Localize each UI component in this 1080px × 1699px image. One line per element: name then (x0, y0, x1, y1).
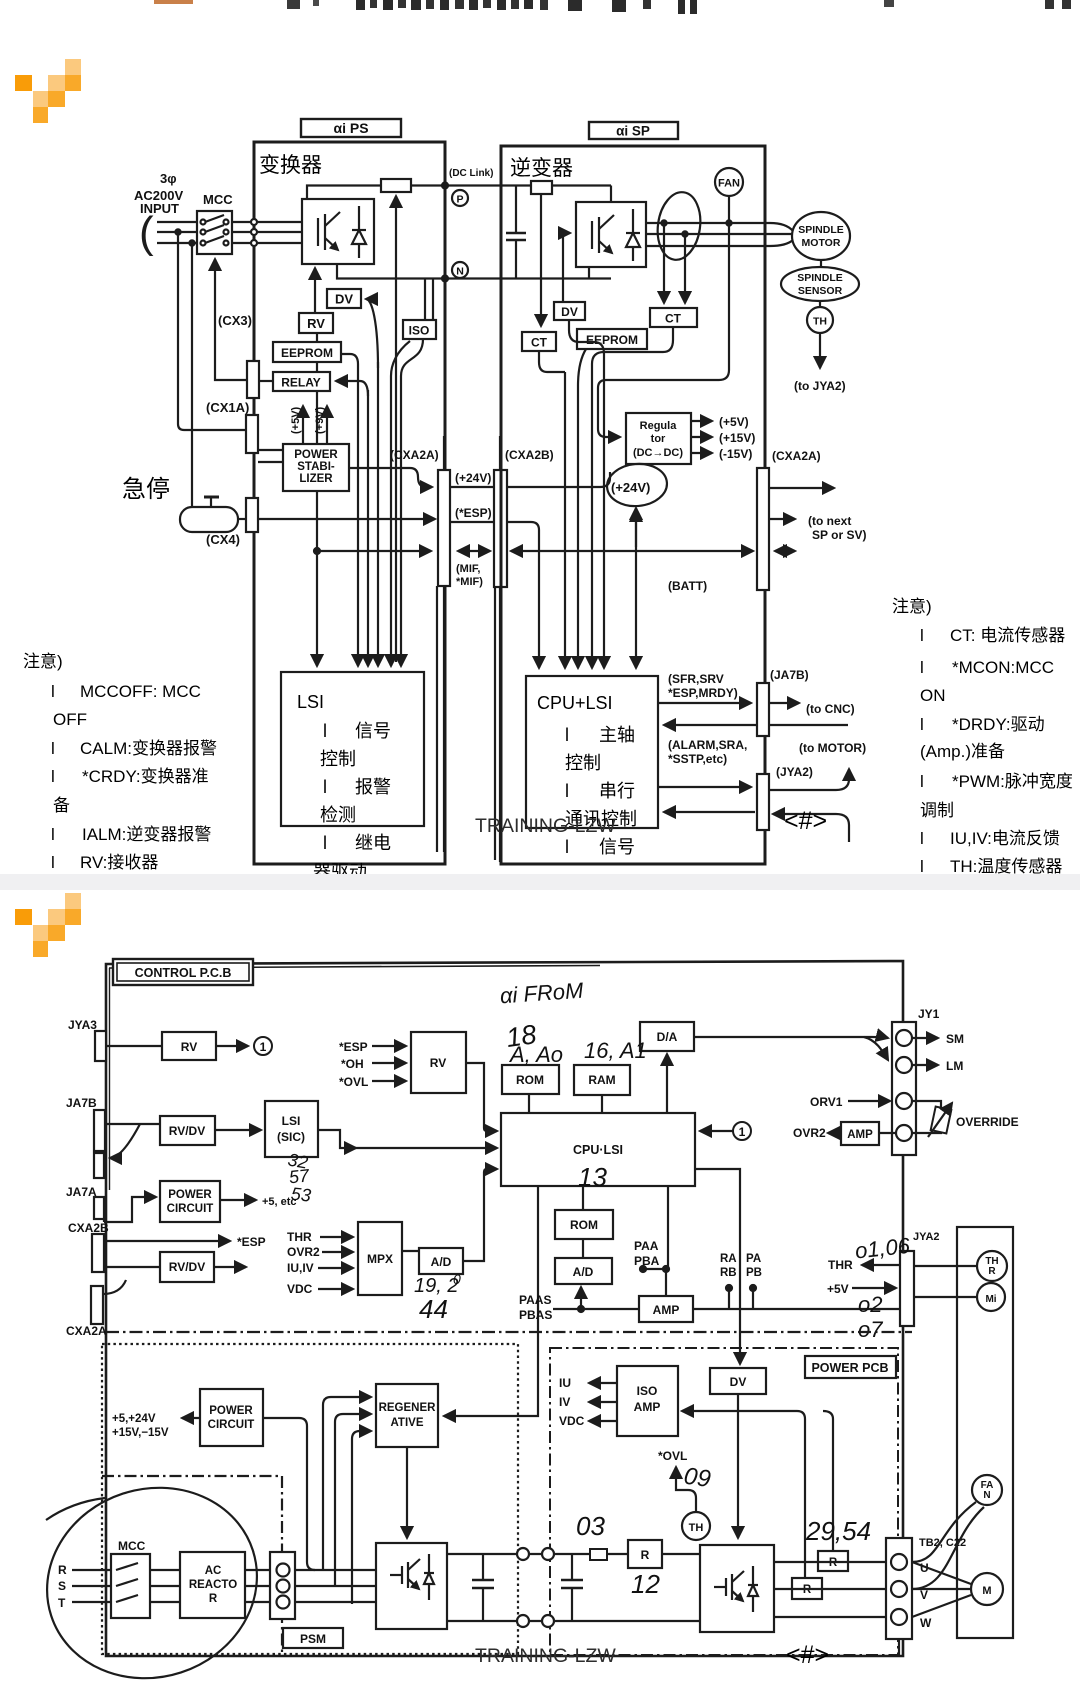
svg-text:LM: LM (946, 1059, 963, 1073)
wire relay feed (259, 380, 273, 382)
box REGENERATIVE (376, 1384, 438, 1447)
svg-text:RA: RA (720, 1253, 737, 1265)
svg-text:+15V,−15V: +15V,−15V (112, 1427, 169, 1439)
svg-text:STABI-: STABI- (297, 461, 335, 473)
capacitor DC bus (515, 186, 517, 234)
box RAM (574, 1065, 630, 1095)
svg-text:CPU·LSI: CPU·LSI (573, 1143, 623, 1157)
box PSM boundary (dash-dot) (102, 1476, 282, 1654)
svg-text:l: l (920, 857, 924, 874)
svg-text:(+9V): (+9V) (314, 406, 326, 434)
wire +24V from stabilizer (349, 468, 432, 487)
svg-text:M: M (982, 1585, 991, 1597)
box D/A (640, 1022, 694, 1051)
node +24V oval (hand-drawn) (605, 461, 668, 508)
svg-text:POWER: POWER (209, 1405, 253, 1417)
connector JYA2 bar (757, 774, 769, 830)
connector 3-phase column (270, 1552, 295, 1619)
svg-text:(+5V): (+5V) (290, 406, 302, 434)
svg-text:l: l (920, 715, 924, 734)
wire regen to igbt (406, 1447, 408, 1538)
box POWER CIRCUIT (160, 1181, 220, 1222)
box αi SP title (589, 122, 678, 139)
svg-text:信号: 信号 (599, 837, 635, 857)
svg-text:l: l (323, 721, 327, 741)
svg-text:DV: DV (561, 305, 578, 319)
svg-text:PB: PB (746, 1267, 762, 1279)
svg-text:53: 53 (290, 1184, 312, 1206)
wire *ESP between bars (450, 521, 494, 523)
svg-text:信号: 信号 (355, 721, 391, 741)
svg-text:JYA3: JYA3 (68, 1018, 97, 1032)
svg-text:RELAY: RELAY (281, 376, 321, 390)
potentiometer OVERRIDE (912, 1101, 941, 1109)
svg-text:(SIC): (SIC) (277, 1130, 305, 1144)
svg-text:(to JYA2): (to JYA2) (794, 379, 846, 393)
svg-text:控制: 控制 (320, 749, 356, 769)
svg-text:注意): 注意) (892, 597, 932, 616)
wire JYA2 to sensors (914, 1265, 977, 1267)
svg-text:(ALARM,SRA,: (ALARM,SRA, (668, 738, 747, 752)
svg-text:1: 1 (739, 1125, 746, 1139)
box AMP (lower) (639, 1296, 693, 1322)
wire motor 3-phase output (646, 223, 793, 231)
node circled 1 (254, 1037, 272, 1055)
svg-text:l: l (565, 781, 569, 801)
box CONTROL P.C.B enclosure (106, 961, 903, 1656)
svg-text:ROM: ROM (570, 1218, 598, 1232)
wire input drop lines (178, 232, 246, 430)
svg-text:W: W (920, 1616, 932, 1630)
svg-text:IU,IV: IU,IV (287, 1261, 314, 1275)
resistor PS charging (381, 179, 411, 192)
box PS main enclosure (254, 142, 445, 864)
fuse (590, 1549, 607, 1560)
svg-text:l: l (323, 777, 327, 797)
svg-text:RV:接收器: RV:接收器 (80, 853, 158, 872)
hand-drawn ellipse (22, 1461, 282, 1699)
svg-text:继电: 继电 (355, 833, 391, 853)
box AC REACTOR (180, 1552, 245, 1618)
svg-text:POWER: POWER (294, 449, 338, 461)
svg-text:PA: PA (746, 1253, 761, 1265)
svg-text:+5,+24V: +5,+24V (112, 1413, 156, 1425)
svg-text:IU,IV:电流反馈: IU,IV:电流反馈 (950, 829, 1060, 848)
transistor PS IGBT module (302, 199, 374, 264)
svg-text:JY1: JY1 (918, 1007, 940, 1021)
box LSI (281, 672, 424, 826)
svg-text:03: 03 (576, 1511, 605, 1541)
svg-text:ROM: ROM (516, 1073, 544, 1087)
box A/D (lower) (555, 1258, 612, 1284)
svg-text:SM: SM (946, 1032, 964, 1046)
resistor R (12) (628, 1540, 662, 1568)
wire MIF feed from LSI bundle (317, 550, 431, 552)
svg-text:OVR2: OVR2 (287, 1245, 320, 1259)
box DV (PS) (327, 289, 361, 308)
svg-text:*OH: *OH (341, 1057, 364, 1071)
box CT right (SP) (650, 308, 697, 327)
box ROM (lower) (582, 1186, 584, 1210)
svg-text:44: 44 (419, 1294, 448, 1324)
box DV (power) (710, 1368, 766, 1394)
box αi PS title (301, 119, 401, 137)
box RV/DV (CXA2B) (160, 1252, 214, 1282)
regulator DC-DC (626, 413, 691, 464)
svg-text:SPINDLE: SPINDLE (797, 272, 843, 284)
svg-text:FAN: FAN (718, 178, 740, 190)
svg-text:(DC→DC): (DC→DC) (633, 447, 683, 459)
connector CX3 bar (247, 361, 259, 398)
box RV (JYA3) (162, 1032, 216, 1060)
svg-text:1: 1 (260, 1040, 267, 1054)
svg-text:CIRCUIT: CIRCUIT (167, 1203, 214, 1215)
box CPU+LSI (564, 372, 566, 668)
svg-text:CT: 电流传感器: CT: 电流传感器 (950, 626, 1065, 645)
svg-text:THR: THR (287, 1230, 312, 1244)
svg-text:CT: CT (665, 312, 682, 326)
resistor SP (531, 181, 552, 194)
box POWER CIRCUIT (lower) (200, 1389, 263, 1446)
svg-text:CT: CT (531, 336, 548, 350)
svg-text:AMP: AMP (634, 1400, 661, 1414)
wire bar to stabilizer (258, 449, 283, 451)
svg-text:(to next: (to next (808, 514, 851, 528)
svg-text:(CXA2B): (CXA2B) (505, 448, 554, 462)
svg-text:RAM: RAM (588, 1073, 615, 1087)
svg-text:AMP: AMP (653, 1303, 680, 1317)
node junctions on PS edge (251, 219, 257, 225)
svg-text:o2: o2 (858, 1292, 882, 1317)
box R (sense 2) (792, 1578, 822, 1599)
svg-text:EEPROM: EEPROM (281, 346, 333, 360)
svg-text:(JYA2): (JYA2) (776, 765, 813, 779)
svg-text:(+24V): (+24V) (611, 480, 650, 495)
node circled 1 (right) (733, 1122, 751, 1140)
sensor Mi (977, 1283, 1005, 1311)
svg-text:*ESP: *ESP (339, 1040, 368, 1054)
svg-text:<#>: <#> (786, 1641, 829, 1669)
svg-text:PAAS: PAAS (519, 1293, 551, 1307)
svg-text:αi FRoM: αi FRoM (499, 978, 585, 1009)
svg-text:(to CNC): (to CNC) (806, 702, 855, 716)
svg-text:+5V: +5V (827, 1282, 849, 1296)
box left power unit (dotted) (102, 1344, 518, 1654)
svg-text:DV: DV (730, 1375, 747, 1389)
svg-text:l: l (565, 725, 569, 745)
wire LSI(SIC) to CPU (318, 1130, 497, 1148)
thermistor TH R (977, 1251, 1007, 1281)
svg-text:PAA: PAA (634, 1239, 659, 1253)
svg-text:RV: RV (307, 316, 325, 331)
switch emergency stop button (180, 507, 238, 532)
wire to next SP or SV (769, 487, 834, 489)
svg-text:12: 12 (631, 1569, 660, 1599)
svg-text:注意): 注意) (23, 652, 63, 671)
svg-text:l: l (920, 829, 924, 848)
svg-text:*ESP: *ESP (237, 1235, 266, 1249)
CT sensing loop (hand-drawn oval) (653, 189, 704, 262)
spindle motor (792, 212, 850, 260)
node current taps (661, 220, 666, 225)
svg-text:REGENER: REGENER (379, 1402, 437, 1414)
wire bundle down to LSI (316, 333, 318, 666)
box ISO AMP (617, 1366, 678, 1436)
wire +24V between bars (450, 486, 494, 488)
svg-text:*SSTP,etc): *SSTP,etc) (668, 752, 727, 766)
svg-text:*DRDY:驱动: *DRDY:驱动 (952, 715, 1045, 734)
svg-text:(+15V): (+15V) (719, 431, 755, 445)
top strip: cut-off fragments of previous slide title (0, 0, 1080, 24)
svg-text:*PWM:脉冲宽度: *PWM:脉冲宽度 (952, 772, 1073, 791)
svg-text:P: P (456, 194, 463, 206)
contactor MCC (197, 211, 232, 254)
svg-text:*OVL: *OVL (339, 1075, 368, 1089)
svg-text:l: l (51, 767, 55, 786)
svg-text:JYA2: JYA2 (913, 1231, 940, 1243)
svg-text:SENSOR: SENSOR (798, 285, 843, 297)
transistor SP IGBT module (576, 202, 646, 267)
svg-text:CPU+LSI: CPU+LSI (537, 693, 613, 713)
svg-text:*MCON:MCC: *MCON:MCC (952, 658, 1054, 677)
svg-text:N: N (983, 1490, 990, 1501)
svg-text:(MIF,: (MIF, (456, 563, 480, 575)
svg-text:SPINDLE: SPINDLE (798, 224, 844, 236)
overlay notes left (23, 652, 217, 872)
box CONTROL P.C.B label (113, 959, 253, 985)
svg-text:AMP: AMP (847, 1129, 873, 1141)
svg-text:R: R (58, 1563, 67, 1577)
svg-text:3φ: 3φ (160, 171, 177, 186)
box EEPROM (SP) (577, 329, 647, 349)
connector JA7B bar (757, 683, 769, 736)
svg-text:TH: TH (689, 1522, 704, 1534)
svg-text:l: l (920, 658, 924, 677)
svg-text:o7: o7 (858, 1317, 883, 1342)
thermistor TH (819, 301, 821, 307)
svg-text:REACTO: REACTO (189, 1579, 237, 1591)
box right power pcb (dash-dot) (550, 1348, 898, 1655)
wire AMP output to JYA2 (693, 1308, 900, 1310)
svg-text:l: l (323, 833, 327, 853)
svg-text:RV: RV (181, 1040, 197, 1054)
svg-text:检测: 检测 (320, 805, 356, 825)
svg-text:<#>: <#> (784, 807, 827, 835)
svg-text:ISO: ISO (409, 324, 430, 338)
wire current sense to ISO AMP (682, 1411, 805, 1578)
svg-text:*CRDY:变换器准: *CRDY:变换器准 (82, 767, 209, 786)
box RV/DV (JA7B) (160, 1116, 215, 1145)
wire 3-phase input lines (157, 221, 302, 223)
svg-text:(SFR,SRV: (SFR,SRV (668, 672, 724, 686)
box CT left (SP) (540, 194, 542, 326)
wire D/A to JY1 (694, 1037, 888, 1038)
box A/D (419, 1248, 463, 1274)
grey divider (0, 874, 1080, 890)
svg-text:OVERRIDE: OVERRIDE (956, 1115, 1019, 1129)
svg-text:0: 0 (453, 1271, 461, 1287)
node 3φ AC200V INPUT label (134, 171, 233, 216)
svg-text:ORV1: ORV1 (810, 1095, 843, 1109)
wire MIF handshake (458, 550, 490, 552)
box CPU+LSI (501, 1113, 695, 1186)
wire CPU right to DV (695, 1169, 740, 1364)
svg-text:IU: IU (559, 1376, 571, 1390)
svg-text:VDC: VDC (559, 1414, 585, 1428)
svg-text:CIRCUIT: CIRCUIT (208, 1419, 255, 1431)
svg-text:变换器: 变换器 (259, 154, 322, 177)
svg-text:l: l (920, 626, 924, 645)
svg-text:LSI: LSI (282, 1114, 301, 1128)
svg-text:报警: 报警 (355, 777, 391, 797)
power stabilizer (283, 444, 349, 491)
wire module outputs to TB2 (774, 1561, 886, 1563)
svg-text:*OVL: *OVL (658, 1449, 687, 1463)
svg-text:串行: 串行 (599, 781, 635, 801)
svg-text:*ESP,MRDY): *ESP,MRDY) (668, 686, 738, 700)
svg-text:(CX3): (CX3) (218, 313, 252, 328)
logo slide1 (15, 59, 81, 123)
svg-text:调制: 调制 (920, 801, 954, 820)
svg-text:OFF: OFF (53, 710, 87, 729)
svg-text:CALM:变换器报警: CALM:变换器报警 (80, 739, 217, 758)
box DV (SP) (563, 233, 570, 302)
box RELAY (273, 372, 330, 391)
svg-text:TH:温度传感器: TH:温度传感器 (950, 857, 1062, 874)
svg-text:(+24V): (+24V) (455, 471, 491, 485)
svg-text:(CXA2A): (CXA2A) (390, 448, 439, 462)
svg-text:器驱动: 器驱动 (313, 862, 367, 874)
svg-text:l: l (51, 682, 55, 701)
svg-text:DV: DV (335, 292, 353, 307)
svg-text:(+5V): (+5V) (719, 415, 749, 429)
svg-text:(DC Link): (DC Link) (449, 168, 493, 179)
svg-text:POWER PCB: POWER PCB (811, 1361, 888, 1375)
wire DC link P rail (307, 186, 381, 200)
svg-text:*MIF): *MIF) (456, 576, 483, 588)
wire dash-dot boundary (106, 1331, 912, 1333)
svg-text:EEPROM: EEPROM (586, 333, 638, 347)
svg-text:逆变器: 逆变器 (510, 157, 573, 180)
node bus couplers (517, 1548, 529, 1560)
svg-text:IALM:逆变器报警: IALM:逆变器报警 (82, 825, 211, 844)
overlay text LSI block (297, 692, 391, 882)
svg-text:R: R (988, 1266, 996, 1277)
svg-text:控制: 控制 (565, 753, 601, 773)
wire ESP line to CXA2A (258, 518, 435, 520)
svg-text:ON: ON (920, 686, 946, 705)
wire regen feeds (323, 1397, 371, 1570)
svg-text:TRAINING-LZW: TRAINING-LZW (475, 815, 616, 837)
svg-text:ATIVE: ATIVE (390, 1417, 423, 1429)
box ROM (502, 1065, 559, 1094)
connector CX4 bar (246, 498, 258, 532)
box motor housing (957, 1227, 1013, 1638)
wire N rail (337, 264, 611, 279)
svg-text:Mi: Mi (985, 1294, 996, 1305)
svg-text:S: S (58, 1579, 66, 1593)
svg-text:RB: RB (720, 1267, 737, 1279)
svg-text:SP or SV): SP or SV) (812, 528, 866, 542)
wire DC bus top/bottom (447, 1553, 700, 1555)
svg-text:急停: 急停 (122, 476, 170, 503)
svg-text:VDC: VDC (287, 1282, 313, 1296)
svg-text:RV/DV: RV/DV (169, 1260, 205, 1274)
svg-text:A, Ao: A, Ao (508, 1042, 563, 1067)
svg-text:MOTOR: MOTOR (802, 237, 841, 249)
svg-text:(JA7B): (JA7B) (770, 668, 809, 682)
wire CPU to JA7B (658, 702, 751, 704)
svg-text:JA7B: JA7B (66, 1096, 97, 1110)
wire MCC control line (CX3) (215, 259, 247, 380)
svg-text:备: 备 (53, 796, 70, 815)
box POWER PCB label (805, 1356, 896, 1378)
svg-text:TRAINING-LZW: TRAINING-LZW (475, 1645, 616, 1667)
handwritten annotations bottom (576, 1463, 871, 1599)
svg-text:R: R (209, 1593, 218, 1605)
slide 2 diagram (0, 890, 1080, 1699)
wire CPU bottom to REGEN (444, 1186, 538, 1416)
transistor right IGBT module (700, 1545, 774, 1632)
svg-text:TH: TH (813, 316, 827, 328)
svg-text:(Amp.)准备: (Amp.)准备 (920, 742, 1005, 761)
svg-text:αi PS: αi PS (333, 120, 368, 136)
svg-text:PBA: PBA (634, 1254, 660, 1268)
svg-text:THR: THR (828, 1258, 853, 1272)
svg-text:(BATT): (BATT) (668, 579, 707, 593)
svg-text:l: l (920, 772, 924, 791)
svg-text:LIZER: LIZER (299, 473, 333, 485)
overlay text CPU+LSI block (537, 693, 637, 857)
box ISO (424, 279, 426, 321)
svg-text:l: l (51, 825, 55, 844)
svg-text:LSI: LSI (297, 692, 324, 712)
svg-text:ISO: ISO (637, 1384, 658, 1398)
svg-text:RV/DV: RV/DV (169, 1124, 205, 1138)
node P terminal (452, 190, 468, 206)
svg-text:AC: AC (205, 1565, 222, 1577)
wire BATT line (511, 550, 753, 552)
hand-drawn stray stroke (46, 1498, 105, 1520)
svg-text:l: l (51, 739, 55, 758)
svg-text:13: 13 (578, 1162, 607, 1192)
svg-text:16, A1: 16, A1 (584, 1038, 647, 1063)
svg-text:IV: IV (559, 1395, 570, 1409)
svg-text:(*ESP): (*ESP) (455, 506, 492, 520)
fan FAN (715, 168, 743, 196)
svg-text:JA7A: JA7A (66, 1185, 97, 1199)
svg-text:RV: RV (430, 1056, 446, 1070)
svg-text:MPX: MPX (367, 1252, 393, 1266)
svg-text:(CX4): (CX4) (206, 532, 240, 547)
svg-text:N: N (456, 266, 464, 278)
svg-text:POWER: POWER (168, 1189, 212, 1201)
svg-text:(-15V): (-15V) (719, 447, 752, 461)
svg-text:R: R (641, 1548, 650, 1562)
motor M (912, 1562, 971, 1584)
node N terminal (452, 262, 468, 278)
svg-text:(to MOTOR): (to MOTOR) (799, 741, 866, 755)
svg-text:MCC: MCC (203, 192, 233, 207)
connector TB2 (886, 1538, 912, 1639)
svg-text:(CXA2A): (CXA2A) (772, 449, 821, 463)
svg-text:tor: tor (651, 433, 666, 445)
logo slide2 (15, 893, 81, 957)
wire power circuit feed (263, 1418, 315, 1570)
svg-text:CONTROL P.C.B: CONTROL P.C.B (135, 966, 232, 980)
box RV (PS) (314, 268, 316, 313)
svg-text:A/D: A/D (573, 1265, 594, 1279)
